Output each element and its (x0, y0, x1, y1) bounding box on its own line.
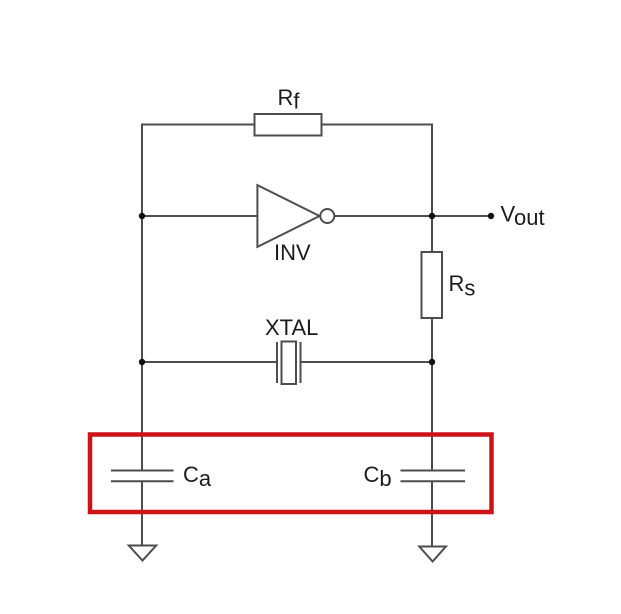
wire: right vertical rail (Rs bottom to Cb top plate) (431, 318, 433, 471)
node: XTAL right junction (429, 359, 435, 365)
resistor Rf (255, 114, 322, 136)
svg-text:Cb: Cb (364, 462, 392, 491)
capacitor Ca (111, 471, 174, 482)
capacitor Cb (401, 471, 466, 482)
highlight box around Ca and Cb (red) (90, 435, 492, 513)
node: XTAL left junction (139, 359, 145, 365)
wire: right vertical rail (Cb bottom plate to ground) (431, 481, 433, 547)
crystal XTAL (277, 342, 301, 385)
node: output junction (429, 213, 435, 219)
wire: left vertical rail (Ca bottom plate to ground) (141, 481, 143, 546)
inverter output bubble (320, 209, 334, 223)
terminal dot Vout (488, 213, 494, 219)
wire: right vertical rail (top corner to Rs top) (431, 125, 433, 253)
svg-text:Ca: Ca (183, 462, 212, 491)
wire: inverter input (142, 215, 258, 217)
resistor Rs (422, 252, 443, 318)
svg-text:Rf: Rf (278, 85, 301, 114)
wire: inverter output to Vout terminal (334, 215, 491, 217)
wire: top feedback, right of Rf (322, 124, 434, 126)
wire: XTAL right segment (301, 361, 433, 363)
wire: XTAL left segment (142, 361, 277, 363)
svg-text:XTAL: XTAL (265, 315, 318, 340)
op-amp U1 inverter INV triangle (257, 185, 319, 247)
node: inverter input junction (139, 213, 145, 219)
svg-text:Vout: Vout (501, 201, 545, 230)
ground (right) (419, 547, 446, 562)
svg-text:INV: INV (274, 240, 311, 265)
wire: top feedback, left of Rf (141, 124, 255, 126)
wire: left vertical rail (top corner to Ca top plate) (141, 125, 143, 471)
ground (left) (129, 546, 156, 561)
